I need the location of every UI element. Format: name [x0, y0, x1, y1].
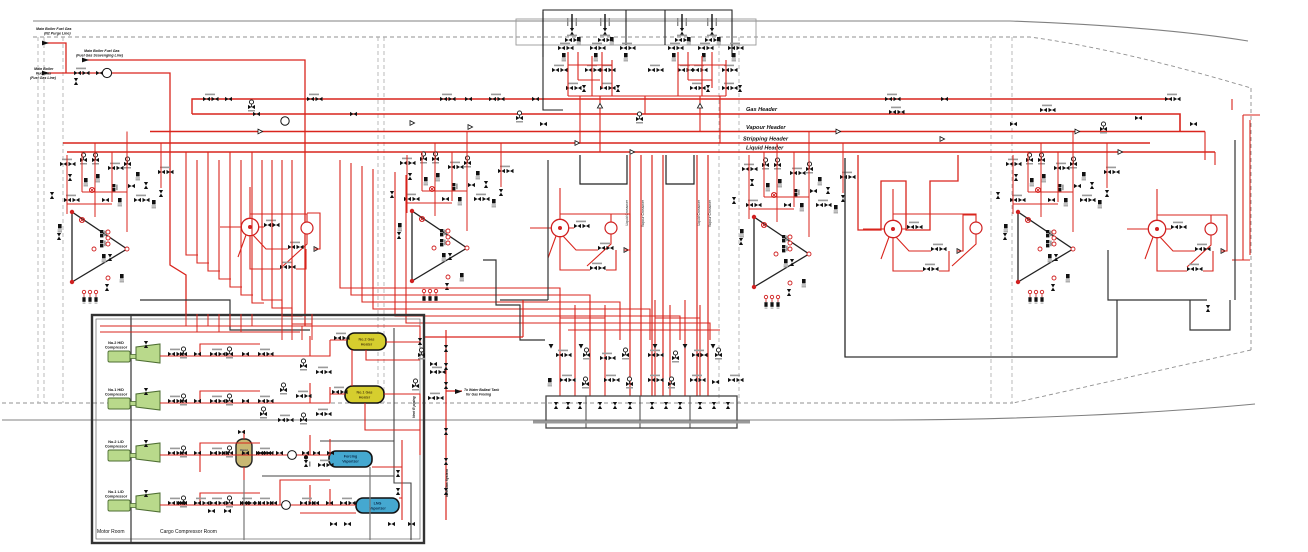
- manifold frame valve 2: [566, 402, 570, 409]
- tank 3 dome valve 5: [424, 177, 428, 185]
- compressor No.2 L/D body: [136, 443, 160, 462]
- dome mid cluster 5: [678, 65, 694, 73]
- header valve 5: [307, 94, 323, 102]
- tank 1 dome valve 14: [1105, 190, 1109, 197]
- tank 2 dome valve 14: [841, 195, 845, 202]
- dome black drop left: [543, 12, 563, 110]
- tank 2 tower lower stack: [784, 259, 795, 267]
- dome cluster 4: [668, 43, 684, 62]
- svg-text:Vaporizer: Vaporizer: [369, 507, 386, 511]
- tank 1 dome valve 5: [1030, 178, 1034, 186]
- N2 purge arrow: [42, 41, 49, 46]
- lng feed valve 5: [270, 501, 277, 505]
- tank 4 dome valve 4: [68, 174, 72, 181]
- comp room mid valve 6: [316, 367, 332, 375]
- tank 1 pump valve 1: [1171, 222, 1187, 230]
- valve on fuel line: [96, 71, 103, 75]
- tank 4 dome valve 13: [158, 167, 174, 175]
- manifold valve 11: [582, 377, 589, 389]
- tank 4 dome valve 14: [159, 190, 163, 197]
- compressor No.1 H/D discharge cluster: [144, 388, 148, 395]
- header valve 14: [885, 94, 901, 102]
- compressor No.1 L/D motor: [108, 500, 130, 511]
- suction valve 4-3: [194, 501, 201, 505]
- hull bow stem dashed: [1250, 88, 1252, 350]
- manifold valve 15: [668, 377, 675, 389]
- valve CG509: [74, 78, 78, 85]
- manifold valve 1: [556, 350, 572, 358]
- demister valve 4: [302, 451, 309, 455]
- header flow arrow 5: [630, 150, 635, 155]
- tank 3 dome red piping: [407, 163, 501, 231]
- svg-text:(Fuel Gas Line): (Fuel Gas Line): [30, 76, 57, 80]
- tank 2 main cargo pump: [884, 220, 901, 237]
- dome lower cluster 2: [600, 83, 620, 92]
- header flow arrow 4: [575, 141, 580, 146]
- tank 3 dome valve 1: [400, 158, 416, 166]
- svg-text:Inert Gas System: Inert Gas System: [445, 469, 449, 497]
- dome cluster 5: [698, 43, 714, 62]
- heater aux cluster 1: [418, 338, 422, 345]
- tank 1 tower lower stack: [1048, 254, 1059, 262]
- svg-text:Compressor: Compressor: [105, 346, 128, 350]
- tank 4 dome valve 11: [128, 184, 135, 188]
- tank 3 spray dots left: [422, 289, 437, 302]
- lng feed valve 10: [194, 498, 210, 506]
- header valve 19: [1100, 122, 1107, 134]
- stripping header: [63, 142, 1150, 144]
- tank 1 dome valve 1: [1006, 159, 1022, 167]
- tank 3 header risers: [407, 132, 501, 176]
- dome mid cluster 7: [722, 65, 738, 73]
- tank 2 dome valve 16: [746, 200, 762, 208]
- tank 2 dome valve 9: [818, 177, 822, 185]
- dome red piping right: [645, 52, 726, 96]
- suction valve 4-6: [242, 501, 249, 505]
- header valve 21: [1165, 94, 1181, 102]
- ballast gas-freeing line: [425, 300, 523, 520]
- svg-text:No.2 H/D: No.2 H/D: [108, 341, 124, 345]
- tank 3 pump lower line: [560, 214, 630, 270]
- tank 3 bottom stack: [460, 273, 464, 281]
- header valve 9: [489, 94, 505, 102]
- svg-text:Heater: Heater: [361, 343, 373, 347]
- suction valve 3-4: [210, 448, 226, 456]
- black line tank2 left: [844, 158, 846, 357]
- header valve 11: [516, 111, 523, 123]
- svg-text:Main Boiler Fuel Gas: Main Boiler Fuel Gas: [84, 49, 120, 53]
- svg-text:Vent R piping: Vent R piping: [412, 395, 416, 418]
- svg-text:Stripping Header: Stripping Header: [743, 137, 789, 143]
- svg-text:Vapour Crossover: Vapour Crossover: [641, 199, 645, 227]
- comp room lower valve 1: [396, 470, 400, 477]
- header valve 1: [203, 94, 219, 102]
- manifold valve 2: [583, 348, 590, 360]
- tank 1 spray pump: [1205, 223, 1217, 235]
- tank 3 dome valve 16: [404, 194, 420, 202]
- svg-text:Cargo Compressor Room: Cargo Compressor Room: [160, 529, 217, 535]
- demister line: [160, 430, 402, 520]
- suction valve 2-6: [242, 399, 249, 403]
- comp room lower valve 4: [388, 522, 395, 526]
- svg-text:No.1 Gas: No.1 Gas: [357, 391, 373, 395]
- header valve 16: [889, 107, 905, 115]
- forcing vap inlet valve: [318, 460, 334, 468]
- vapour header: [150, 131, 1205, 133]
- dome lower cluster 4: [722, 83, 742, 92]
- ballast line valve 5: [444, 458, 448, 465]
- suction valve 3-7: [258, 448, 274, 456]
- dome valve column 4: [705, 14, 721, 45]
- tank 2 tower corner dots: [752, 215, 811, 289]
- tank 3 dome valve 18: [458, 197, 462, 205]
- comp room mid valve 2: [430, 367, 446, 375]
- tank 4 pump valve 3: [280, 262, 296, 270]
- dome cluster 6: [728, 43, 744, 62]
- suction valve 4-5: [226, 496, 233, 508]
- tank 1 dome valve 10: [1058, 184, 1064, 191]
- tank 1 pump valve 2: [1195, 244, 1226, 254]
- gas header: [192, 114, 1180, 132]
- tank 3 dome valve 11: [468, 183, 475, 187]
- vaporizer inlet cluster: [304, 455, 311, 467]
- tank 1 pump tower triangle: [1018, 212, 1073, 282]
- tank 2 dome valve 19: [816, 200, 832, 208]
- tank 4 pump discharge lines: [220, 187, 307, 266]
- tank 4 pump lower line: [250, 213, 320, 269]
- suction valve 2-5: [226, 394, 233, 406]
- bulkhead dashed 7: [738, 37, 740, 403]
- liquid header: [67, 151, 1215, 153]
- dome mid cluster 2: [585, 65, 601, 73]
- tank 4 pump valve 1: [264, 220, 280, 228]
- dome arrows: [597, 103, 602, 108]
- tank 1 dome valve 9: [1082, 172, 1086, 180]
- svg-text:No.2 Gas: No.2 Gas: [359, 338, 375, 342]
- manifold frame valve 9: [678, 402, 682, 409]
- tank 1 bottom stack: [1066, 274, 1070, 282]
- tank 1 dome valve 19: [1080, 195, 1096, 203]
- suction valve 4-7: [258, 498, 274, 506]
- black frame mid-right: [845, 158, 1117, 357]
- dome cluster 1: [558, 43, 574, 62]
- forcing vaporizer body: [329, 451, 372, 467]
- tank 2 dome valve 21: [834, 205, 838, 213]
- tank 1 main cargo pump: [1148, 220, 1165, 237]
- tank 3 dome valve 20: [429, 186, 434, 191]
- motor room divider: [130, 315, 132, 543]
- tank 4 tower lower stack: [102, 254, 113, 262]
- dome mid cluster 3: [600, 65, 616, 73]
- cofferdam black step tank3: [483, 260, 545, 340]
- tank 2 dome valve 20: [771, 192, 776, 197]
- suction valve 2-1: [168, 396, 184, 404]
- suction valve 2-4: [210, 396, 226, 404]
- tank2 red loop wave: [858, 155, 958, 230]
- compressor circle symbol: [102, 68, 111, 77]
- svg-text:Compressor: Compressor: [105, 393, 128, 397]
- manifold frame valve 11: [712, 402, 716, 409]
- tank 2 dome valve 11: [810, 189, 817, 193]
- svg-text:(Fuel Gas Scavenging Line): (Fuel Gas Scavenging Line): [76, 54, 124, 58]
- tank 4 tower left instrument: [57, 224, 62, 240]
- header flow arrow 1: [258, 129, 263, 134]
- compressor No.2 L/D shaft: [130, 454, 136, 458]
- lng feed valve 6: [254, 501, 261, 505]
- ballast line valve 2: [444, 363, 448, 370]
- comp room lower valve 6: [330, 522, 337, 526]
- tank 2 pump valve 1: [907, 222, 923, 230]
- black drop center left: [500, 160, 548, 300]
- suction valve 3-1: [168, 448, 184, 456]
- tank 2 pump tower triangle: [754, 217, 809, 287]
- tank 3 pump tower triangle: [412, 211, 467, 281]
- suction valve 1-5: [226, 347, 233, 359]
- tank 3 dome valve 4: [408, 173, 412, 180]
- tank 1 dome valve 17: [1048, 198, 1055, 202]
- hull inner bottom dashed: [2, 402, 1013, 404]
- tank3 drop bundle to manifold: [340, 160, 560, 340]
- lng feed valve 11: [178, 501, 185, 505]
- tank 3 dome valve 12: [484, 181, 488, 188]
- svg-text:Fuel Gas: Fuel Gas: [36, 72, 51, 76]
- lng vaporizer body: [356, 498, 399, 513]
- header valve 10: [532, 97, 539, 101]
- tank 1 dome valve 2: [1026, 153, 1033, 165]
- header valve 22: [1190, 122, 1197, 126]
- tank 2 spray pump: [970, 222, 982, 234]
- manifold frame valve 12: [726, 402, 730, 409]
- demister valve 2: [264, 451, 271, 455]
- suction valve 1-1: [168, 349, 184, 357]
- dome cluster 3: [620, 43, 636, 62]
- tank 3 spray pump: [605, 222, 617, 234]
- manifold riser columns: [560, 300, 720, 396]
- tank 4 dome valve 17: [102, 198, 109, 202]
- manifold valve 14: [648, 375, 664, 383]
- svg-text:(N2 Purge Line): (N2 Purge Line): [44, 32, 71, 36]
- tank 3 pump valve 1: [574, 221, 590, 229]
- compressor No.2 H/D motor: [108, 351, 130, 362]
- heater inlet valve 1: [334, 333, 350, 341]
- bulkhead dashed 4: [377, 37, 379, 403]
- fuel gas arrow: [42, 71, 49, 76]
- tank 3 dome valve 13: [498, 166, 514, 174]
- tank 2 dome valve 4: [750, 179, 754, 186]
- manifold valve 13: [626, 377, 633, 389]
- tank 2 dome valve 15: [732, 197, 736, 204]
- comp room mid valve 12: [316, 409, 332, 417]
- tank 4 pump valve 2: [288, 242, 319, 252]
- suction valve 1-6: [242, 352, 249, 356]
- comp room lower valve 5: [344, 522, 351, 526]
- tank 1 pump lower line: [1157, 215, 1227, 271]
- tank 2 pump lower line: [893, 215, 976, 271]
- svg-text:To Water Ballast Tank: To Water Ballast Tank: [464, 388, 500, 392]
- tank 4 dome valve 3: [92, 153, 99, 165]
- tank 3 dome valve 8: [464, 156, 471, 168]
- heater No.2 body: [347, 333, 386, 350]
- svg-text:Vapour Crossover: Vapour Crossover: [708, 199, 712, 227]
- tank 3 pump valve 2: [598, 243, 629, 253]
- tank 3 dome valve 6: [436, 173, 440, 181]
- header flow arrow 3: [468, 125, 473, 130]
- suction valve 3-6: [242, 451, 249, 455]
- compressor No.1 L/D body: [136, 493, 160, 512]
- compressor No.2 H/D body: [136, 344, 160, 363]
- tank 3 tower left instrument: [397, 223, 402, 239]
- svg-text:Main Boiler: Main Boiler: [34, 67, 54, 71]
- header flow arrow 9: [1118, 150, 1123, 155]
- tank 4 dome valve 15: [50, 192, 54, 199]
- tank 2 pump discharge lines: [863, 189, 976, 266]
- tank 2 dome valve 8: [806, 162, 813, 174]
- manifold frame valve 7: [650, 402, 654, 409]
- demister valve 7: [222, 451, 229, 455]
- manifold valve 3: [600, 353, 616, 361]
- manifold frame valve 3: [578, 402, 582, 409]
- bow valve in box: [1206, 305, 1210, 312]
- scavenging arrow: [82, 58, 89, 63]
- suction valve 4-2: [180, 496, 187, 508]
- tank 1 dome red piping: [1013, 164, 1107, 232]
- manifold down arrows: [549, 344, 554, 349]
- lng circle symbol: [282, 501, 291, 510]
- svg-text:Liquid Crossover: Liquid Crossover: [625, 199, 629, 225]
- tank 4 dome valve 16: [64, 195, 80, 203]
- compressor suction line 4: [160, 485, 330, 505]
- header flow arrow 7: [940, 137, 945, 142]
- compressor No.2 H/D discharge cluster: [144, 341, 148, 348]
- tank 1 dome valve 6: [1042, 174, 1046, 182]
- tank 1 dome valve 3: [1038, 153, 1045, 165]
- svg-text:No.2 L/D: No.2 L/D: [108, 440, 124, 444]
- tank 1 dome valve 13: [1104, 167, 1120, 175]
- hull bottom line: [2, 404, 1255, 420]
- tank 1 dome valve 16: [1010, 195, 1026, 203]
- compressor No.1 L/D shaft: [130, 504, 136, 508]
- cofferdam black step tank4: [140, 300, 310, 330]
- tank 4 dome valve 2: [80, 153, 87, 165]
- tank 2 dome valve 13: [840, 172, 856, 180]
- dome lower cluster 3: [690, 83, 710, 92]
- tank 4 dome valve 5: [84, 178, 88, 186]
- compressor No.1 H/D body: [136, 391, 160, 410]
- manifold frame valve 1: [554, 402, 558, 409]
- tank 2 dome valve 17: [784, 203, 791, 207]
- tank 1 dome valve 7: [1054, 163, 1070, 171]
- comp room top red main: [100, 314, 420, 340]
- manifold crossover frame: [546, 396, 737, 428]
- tank 3 dome valve 17: [442, 197, 449, 201]
- valve CG505: [74, 68, 90, 76]
- tank4 drop bundle: [186, 152, 198, 255]
- header valve 13: [636, 112, 643, 124]
- lng feed valve 8: [224, 509, 231, 513]
- svg-text:LNG: LNG: [374, 502, 382, 506]
- lng feed valve 1: [300, 498, 316, 506]
- tank 3 dome valve 7: [448, 162, 464, 170]
- dome cluster 2: [590, 43, 606, 62]
- dome mid cluster 4: [648, 65, 664, 73]
- tank 3 dome valve 2: [420, 152, 427, 164]
- demister valve 6: [327, 451, 334, 455]
- manifold frame valve 4: [598, 402, 602, 409]
- header valve 6: [350, 112, 357, 116]
- ballast line valve 1: [444, 345, 448, 352]
- tank 2 tower inner stack: [782, 235, 792, 252]
- header valve 7: [440, 94, 456, 102]
- tank 4 tower inner stack: [100, 230, 110, 247]
- tank 4 bottom stack: [120, 274, 124, 282]
- tank 2 bottom valve: [787, 281, 792, 296]
- tank 2 dome valve 10: [794, 189, 800, 196]
- demister circle symbol: [288, 451, 297, 460]
- tank 1 header risers: [1013, 132, 1107, 177]
- tank 2 dome valve 12: [826, 187, 830, 194]
- tank 1 dome valve 8: [1070, 157, 1077, 169]
- manifold valve 8: [715, 348, 722, 360]
- svg-text:for Gas Freeing: for Gas Freeing: [466, 393, 492, 397]
- heater recirculation cluster: [430, 362, 437, 366]
- header valve 2: [225, 97, 232, 101]
- comp room mid valve 9: [260, 407, 267, 419]
- tank 3 dome valve 3: [432, 152, 439, 164]
- comp room mid valve 1: [418, 348, 425, 360]
- svg-text:Forcing: Forcing: [344, 455, 358, 459]
- manifold frame valve 6: [628, 402, 632, 409]
- comp room lower valve 3: [408, 522, 415, 526]
- comp room mid valve 5: [300, 359, 307, 371]
- comp room mid valve 7: [280, 383, 287, 395]
- lng feed valve 2: [312, 501, 319, 505]
- dome valve column 3: [675, 14, 691, 45]
- header valve 3: [248, 100, 255, 112]
- lng feed valve 7: [240, 498, 256, 506]
- suction valve 1-4: [210, 349, 226, 357]
- manifold valve 10: [560, 375, 576, 383]
- heater inlet valve 2: [332, 387, 348, 395]
- manifold hull band: [533, 421, 750, 424]
- heater No.1 body: [345, 386, 384, 403]
- demister valve 1: [256, 451, 263, 455]
- tank 4 dome valve 1: [60, 159, 76, 167]
- tank 3 bottom valve: [445, 275, 450, 290]
- compressor suction line 2: [160, 383, 330, 403]
- manifold valve 5: [648, 350, 664, 358]
- suction valve 1-2: [180, 347, 187, 359]
- comp room mid valve 10: [278, 415, 294, 423]
- dome valve column 2: [598, 14, 614, 45]
- manifold valve 16: [690, 375, 706, 383]
- tank 1 dome valve 20: [1035, 187, 1040, 192]
- crossover red columns: [630, 155, 708, 396]
- header valve 12: [540, 122, 547, 126]
- suction valve 1-3: [194, 352, 201, 356]
- tank 3 tower lower stack: [442, 253, 453, 261]
- manifold valve 9: [548, 378, 552, 386]
- tank 3 dome valve 21: [492, 199, 496, 207]
- tank 1 bottom valve: [1051, 276, 1056, 291]
- tank 1 tower left instrument: [1003, 224, 1008, 240]
- suction valve 2-2: [180, 394, 187, 406]
- lng feed valve 4: [340, 498, 356, 506]
- svg-text:Heater: Heater: [359, 396, 371, 400]
- tank 4 dome valve 9: [136, 172, 140, 180]
- N2 purge line: [42, 43, 66, 73]
- compressor suction line 1: [160, 336, 330, 356]
- tank 4 main cargo pump: [241, 218, 258, 235]
